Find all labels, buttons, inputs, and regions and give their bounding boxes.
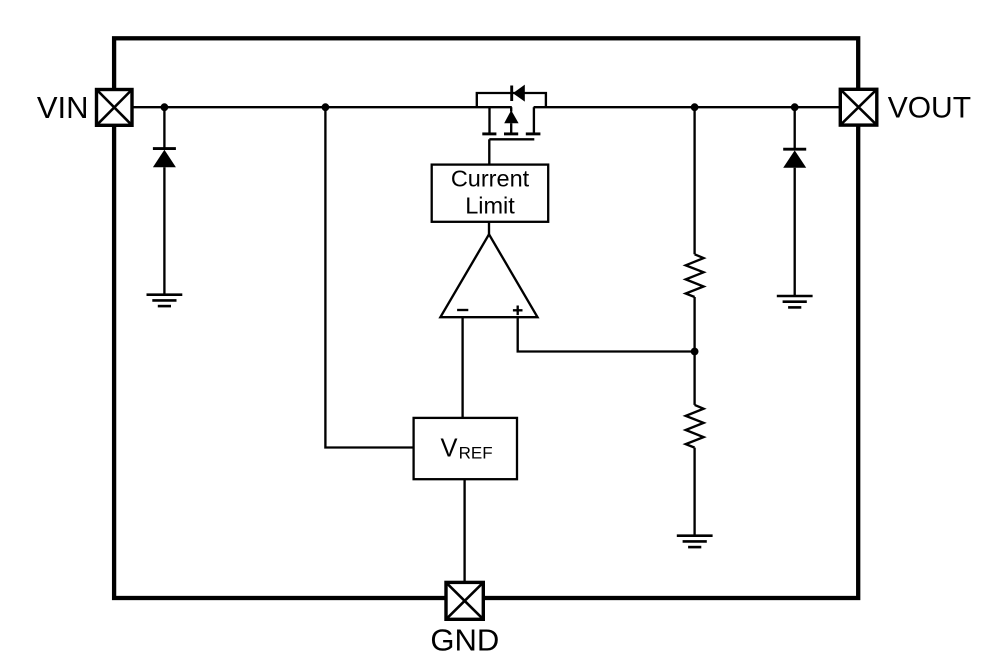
pin VOUT <box>840 89 877 125</box>
current limit block <box>432 165 549 222</box>
wire: current limit to amplifier <box>488 222 490 236</box>
wire: VOUT rail (drain side) <box>534 106 841 108</box>
wire: VREF to GND pin <box>463 479 465 582</box>
resistor R2 <box>686 352 704 536</box>
pin VIN <box>97 90 133 126</box>
node: feedback junction <box>691 348 699 356</box>
wire: VIN rail (source side) <box>132 106 512 108</box>
node: VOUT-diode junction <box>791 103 799 111</box>
svg-text:GND: GND <box>430 623 499 658</box>
svg-text:VOUT: VOUT <box>888 91 971 124</box>
wire: VIN rail to VREF input <box>325 107 413 447</box>
node: VIN-diode junction <box>161 103 169 111</box>
wire: gate to current limit <box>488 139 490 164</box>
wire: non-inverting input to feedback node <box>518 317 695 351</box>
node: VREF feed junction <box>322 103 330 111</box>
svg-text:V: V <box>441 434 458 462</box>
ground below R2 <box>677 536 713 547</box>
wire: bypass diode loop <box>477 93 546 107</box>
diode D2 at VOUT <box>783 107 806 296</box>
IC boundary box <box>114 38 858 598</box>
svg-text:REF: REF <box>459 443 493 462</box>
pin GND <box>446 582 483 619</box>
op-amp U1 error amplifier <box>440 234 537 317</box>
ground below D1 <box>147 295 183 306</box>
reference block VREF <box>414 418 517 479</box>
node: R1 top junction <box>691 103 699 111</box>
wire: inverting input to VREF <box>461 317 463 418</box>
resistor R1 <box>686 107 704 351</box>
transistor Q1 pass PMOS <box>482 107 540 139</box>
diode D1 at VIN <box>153 107 176 295</box>
svg-text:VIN: VIN <box>37 90 89 125</box>
body diode of Q1 <box>504 107 518 134</box>
ground below D2 <box>777 296 813 307</box>
svg-text:Limit: Limit <box>465 192 515 218</box>
diode D4 reverse bypass <box>512 85 525 102</box>
svg-text:Current: Current <box>451 165 530 191</box>
